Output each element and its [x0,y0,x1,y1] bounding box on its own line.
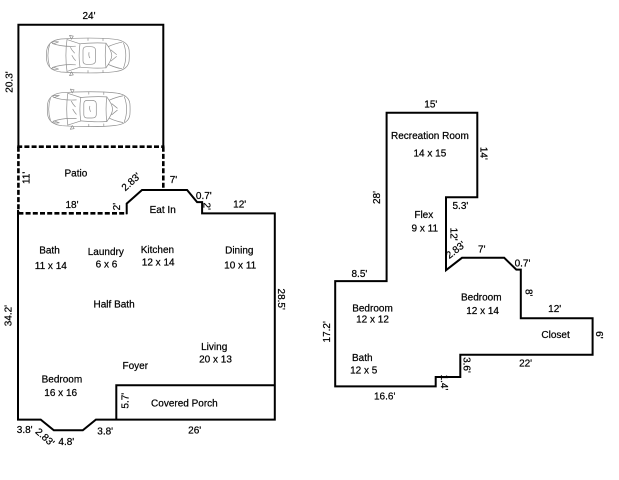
garage door dashed wall [17,145,164,148]
svg-text:Dining: Dining [225,246,253,257]
svg-text:0.7': 0.7' [515,259,531,270]
car 1 [47,35,130,75]
svg-text:15': 15' [424,100,437,111]
svg-text:3.6': 3.6' [461,357,472,373]
svg-text:16.6': 16.6' [374,391,395,402]
svg-text:Bedroom: Bedroom [461,293,502,304]
svg-text:22': 22' [519,359,532,370]
svg-text:12 x 14: 12 x 14 [142,258,175,269]
svg-text:Bedroom: Bedroom [42,375,83,386]
svg-text:16 x 16: 16 x 16 [44,388,77,399]
svg-text:6 x 6: 6 x 6 [96,259,118,270]
svg-text:1.4': 1.4' [438,375,449,391]
svg-text:Closet: Closet [541,330,570,341]
second floor outline [335,113,592,387]
svg-text:2': 2' [201,203,212,211]
svg-text:Bath: Bath [39,246,60,257]
svg-text:24': 24' [82,11,95,22]
svg-text:5.3': 5.3' [452,201,468,212]
svg-text:9 x 11: 9 x 11 [412,224,439,235]
svg-text:28': 28' [372,191,383,204]
svg-text:20.3': 20.3' [5,71,16,92]
svg-text:8': 8' [522,289,533,297]
svg-text:5.7': 5.7' [121,393,132,409]
svg-text:6': 6' [593,331,604,339]
svg-text:Flex: Flex [414,210,433,221]
svg-text:8.5': 8.5' [351,269,367,280]
garage outline [18,25,163,147]
patio right dashed wall [162,147,165,190]
svg-text:7': 7' [478,244,486,255]
svg-text:20 x 13: 20 x 13 [199,355,232,366]
svg-text:4.8': 4.8' [58,437,74,448]
svg-text:14': 14' [478,147,489,160]
svg-text:Living: Living [201,342,227,353]
svg-text:0.7': 0.7' [196,191,212,202]
svg-text:Eat In: Eat In [150,205,176,216]
patio bottom dashed wall [18,212,126,215]
svg-text:17.2': 17.2' [322,321,333,342]
svg-text:18': 18' [65,200,78,211]
car 2 [47,89,130,129]
svg-text:Covered Porch: Covered Porch [151,398,218,409]
svg-text:Laundry: Laundry [88,247,124,258]
svg-text:34.2': 34.2' [4,305,15,326]
svg-text:3.8': 3.8' [97,426,113,437]
svg-text:12': 12' [548,304,561,315]
svg-text:10 x 11: 10 x 11 [224,260,256,271]
svg-text:Foyer: Foyer [123,361,149,372]
svg-text:Kitchen: Kitchen [141,245,174,256]
main floor outline [18,190,275,430]
svg-text:7': 7' [170,175,178,186]
svg-text:Patio: Patio [65,169,88,180]
svg-text:3.8': 3.8' [17,425,33,436]
svg-text:Half Bath: Half Bath [94,299,135,310]
svg-text:26': 26' [188,425,201,436]
svg-text:12 x 12: 12 x 12 [356,315,389,326]
svg-text:2': 2' [112,203,123,211]
svg-text:11 x 14: 11 x 14 [35,261,67,272]
svg-text:Recreation Room: Recreation Room [391,131,469,142]
svg-text:12': 12' [233,200,246,211]
svg-text:12 x 5: 12 x 5 [350,366,378,377]
svg-text:14 x 15: 14 x 15 [413,148,446,159]
patio left dashed wall [17,147,20,215]
covered porch walls [116,385,274,419]
svg-text:12 x 14: 12 x 14 [466,306,499,317]
svg-text:Bath: Bath [352,353,373,364]
svg-text:28.5': 28.5' [275,289,286,310]
svg-text:12': 12' [447,228,458,241]
svg-text:2.83': 2.83' [120,171,143,194]
svg-text:Bedroom: Bedroom [352,304,393,315]
svg-text:11': 11' [21,172,32,184]
